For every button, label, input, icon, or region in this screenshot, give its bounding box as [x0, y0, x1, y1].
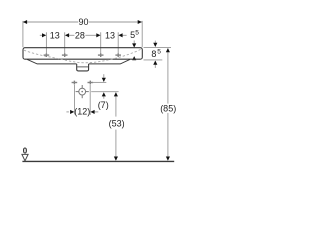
svg-text:90: 90 — [78, 17, 88, 27]
svg-text:(7): (7) — [98, 100, 109, 110]
svg-text:(53): (53) — [109, 118, 125, 128]
svg-text:13: 13 — [50, 30, 60, 40]
svg-text:8: 8 — [151, 49, 156, 59]
svg-text:(85): (85) — [160, 103, 176, 113]
svg-text:5: 5 — [135, 29, 139, 36]
svg-text:(12): (12) — [74, 106, 90, 116]
svg-text:13: 13 — [105, 30, 115, 40]
svg-text:5: 5 — [157, 48, 161, 55]
svg-text:28: 28 — [75, 30, 85, 40]
